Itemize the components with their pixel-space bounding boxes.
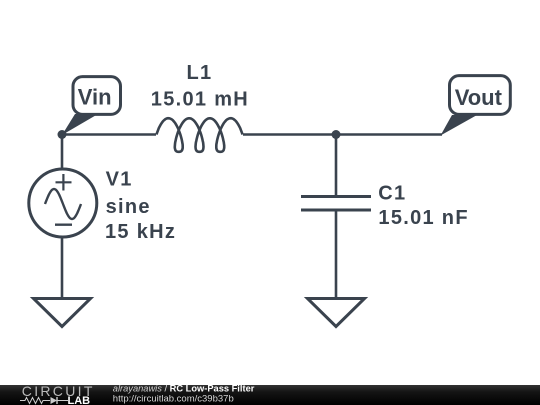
capacitor C1 bottom plate <box>301 209 371 212</box>
svg-text:15.01 nF: 15.01 nF <box>378 207 468 229</box>
wire node out to Vout tail <box>336 133 442 136</box>
logo diode triangle <box>51 397 58 404</box>
svg-text:LAB: LAB <box>68 395 91 405</box>
ground under C1 <box>308 299 365 327</box>
logo resistor zigzag + diode wire <box>20 397 68 404</box>
V1 plus sign <box>56 174 72 191</box>
svg-text:alrayanawis / RC Low-Pass Filt: alrayanawis / RC Low-Pass Filter <box>113 383 255 393</box>
Vout flag tail <box>441 115 478 136</box>
wire V1 bottom to ground <box>61 237 64 299</box>
V1 sine symbol <box>45 189 81 219</box>
voltage source V1 circle <box>29 169 97 237</box>
wire Vin node to V1 top <box>61 135 64 170</box>
ground under V1 <box>34 299 91 327</box>
capacitor C1 top plate <box>301 195 371 198</box>
svg-text:Vout: Vout <box>455 85 503 110</box>
svg-text:L1: L1 <box>187 62 213 84</box>
svg-text:C1: C1 <box>378 183 406 205</box>
svg-text:sine: sine <box>106 196 151 218</box>
svg-text:15.01 mH: 15.01 mH <box>151 89 249 111</box>
wire Vin node to L1 <box>62 133 156 136</box>
Vout flag box <box>450 76 511 115</box>
Vin flag box <box>73 77 121 115</box>
node dot Vin <box>58 130 67 139</box>
wire node to C1 top <box>335 135 338 197</box>
node dot output junction <box>332 130 341 139</box>
wire C1 bottom to ground <box>335 210 338 299</box>
svg-text:V1: V1 <box>106 168 133 190</box>
inductor L1 <box>157 118 243 152</box>
wire L1 to node out <box>243 133 336 136</box>
V1 minus sign <box>55 223 72 225</box>
svg-text:15 kHz: 15 kHz <box>105 221 176 243</box>
Vin flag tail <box>62 114 98 135</box>
svg-text:Vin: Vin <box>78 85 112 110</box>
svg-text:http://circuitlab.com/c39b37b: http://circuitlab.com/c39b37b <box>113 394 234 405</box>
